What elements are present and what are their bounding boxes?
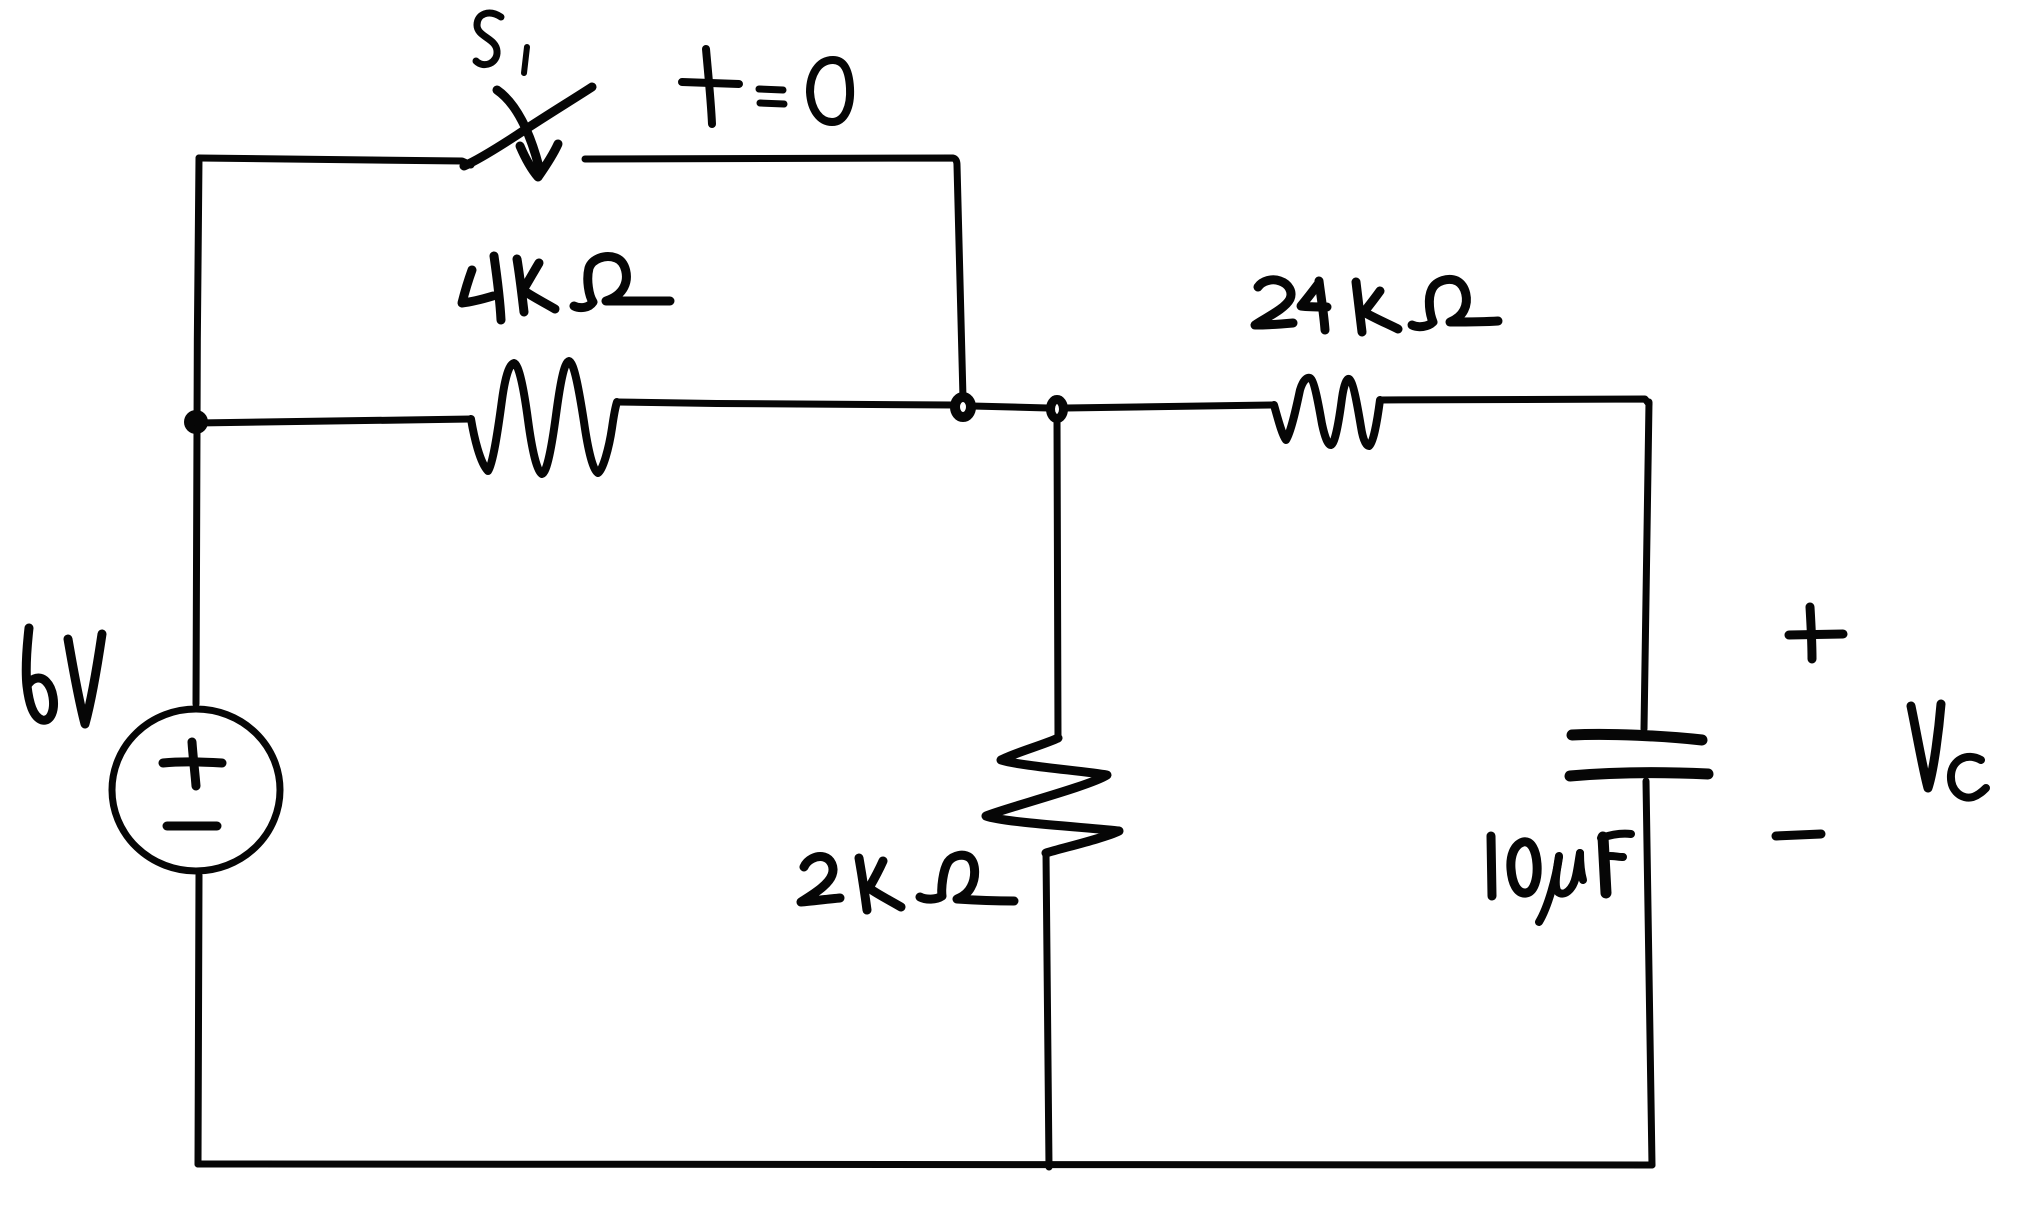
wire source bottom vertical <box>198 875 199 1164</box>
voltage source - <box>167 822 217 831</box>
wire middle horizontal to junction <box>617 402 953 405</box>
label - (capacitor) <box>1776 834 1821 836</box>
wire left vertical (top) <box>196 158 199 704</box>
switch S1 arrow <box>497 90 558 177</box>
wire 24K to top-right corner <box>1380 399 1649 404</box>
wire junction to 24K <box>1066 405 1274 408</box>
wire bottom horizontal <box>198 1164 1652 1165</box>
label 2K ohm <box>801 855 1014 910</box>
label 6V <box>26 628 102 724</box>
switch S1 blade <box>464 87 592 166</box>
wire middle-left horizontal <box>197 419 471 423</box>
resistor 4K ohm zigzag <box>471 361 617 474</box>
label 10uF <box>1491 834 1631 922</box>
capacitor 10uF bottom plate <box>1570 773 1708 776</box>
label Vc <box>1911 704 1986 798</box>
wire between junctions <box>972 406 1048 408</box>
wire top-left horizontal <box>199 158 471 165</box>
node junction dot J2 (ring) <box>1051 400 1064 419</box>
voltage source 6V circle <box>112 709 280 871</box>
label 24K ohm <box>1255 279 1498 332</box>
capacitor 10uF top plate <box>1572 734 1702 740</box>
wire 2K top vertical <box>1057 418 1058 739</box>
node junction dot J1 (ring) <box>955 397 971 417</box>
label 4K ohm <box>462 256 670 320</box>
label + (capacitor) <box>1789 607 1843 659</box>
wire right vertical upper <box>1644 402 1649 729</box>
switch label S1 <box>476 13 527 73</box>
resistor 2K ohm zigzag <box>986 738 1119 853</box>
wire 2K bottom vertical <box>1046 853 1049 1167</box>
node junction dot left (filled) <box>184 410 208 434</box>
label t=0 <box>682 49 850 124</box>
voltage source + <box>163 742 222 786</box>
resistor 24K ohm zigzag <box>1274 378 1380 446</box>
wire right vertical lower <box>1646 781 1652 1165</box>
wire top-right horizontal and down <box>585 158 963 398</box>
